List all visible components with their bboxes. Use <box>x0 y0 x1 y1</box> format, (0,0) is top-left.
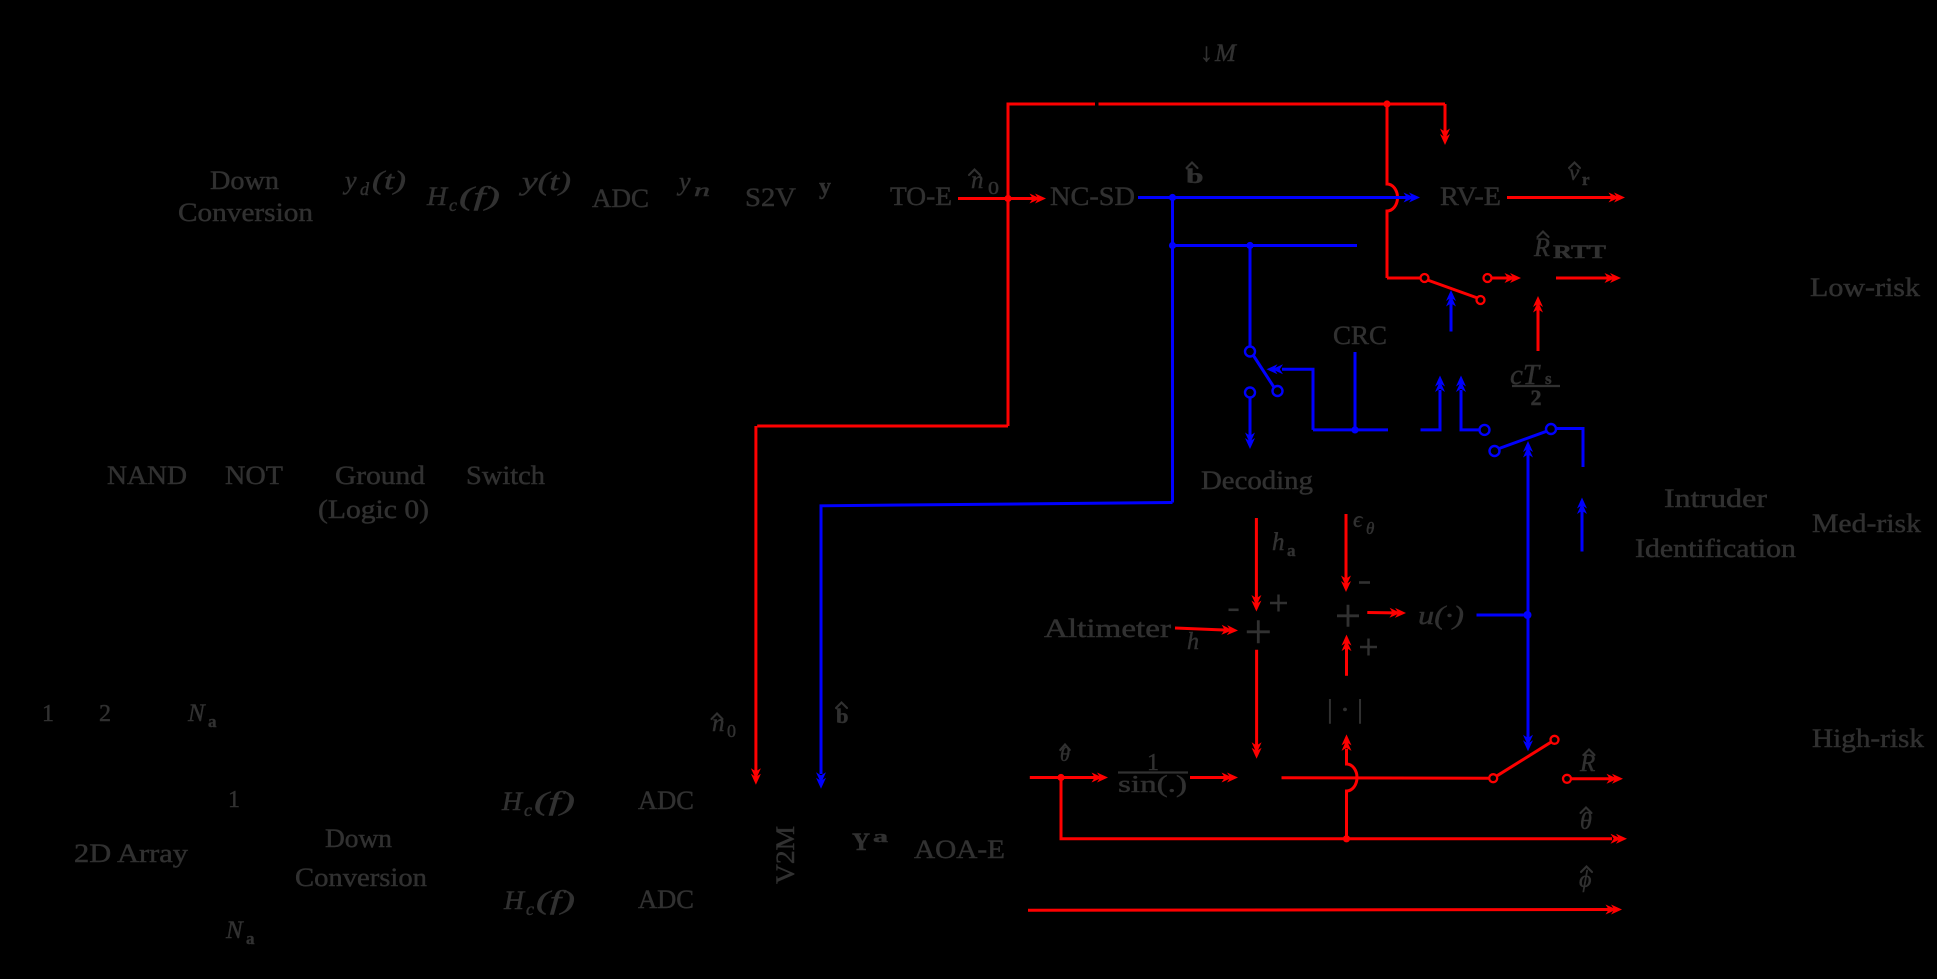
svg-text:RTT: RTT <box>1553 242 1606 263</box>
junction theta_hat tap <box>1057 774 1064 781</box>
wire to RTT switch contact <box>1387 277 1420 280</box>
junction u(.) output <box>1524 611 1532 619</box>
switch Med-risk blade <box>1499 431 1547 448</box>
switch RTT blade <box>1428 280 1478 298</box>
wire u(.) up to Med-risk blade <box>1527 452 1530 613</box>
wire CRC down to bus <box>1354 352 1357 430</box>
sign + at sum1 top-right <box>1270 595 1287 612</box>
junction b_hat branch tap <box>1169 242 1176 249</box>
svg-text:H: H <box>426 182 448 211</box>
svg-text:Y: Y <box>852 829 870 856</box>
sign + at sum2 bottom-right <box>1360 639 1377 656</box>
svg-text:2: 2 <box>1531 385 1542 410</box>
svg-text:V2M: V2M <box>771 826 800 884</box>
svg-text:a: a <box>246 929 255 948</box>
wire n0 across to V2M drop <box>757 425 1008 428</box>
svg-text:N: N <box>187 700 206 727</box>
svg-text:2: 2 <box>99 701 111 727</box>
svg-text:ϵ: ϵ <box>1353 507 1363 532</box>
svg-text:H: H <box>501 787 523 816</box>
svg-text:NOT: NOT <box>225 461 283 490</box>
switch Decoding blade <box>1253 356 1274 388</box>
svg-text:Altimeter: Altimeter <box>1044 614 1171 643</box>
svg-text:c: c <box>449 195 457 215</box>
wire switch to Decoding block <box>1249 398 1252 438</box>
junction theta output / R tap <box>1343 835 1350 842</box>
svg-text:AOA-E: AOA-E <box>914 835 1005 864</box>
svg-text:c: c <box>526 899 534 919</box>
svg-text:H: H <box>503 886 525 915</box>
svg-text:a: a <box>1287 541 1296 560</box>
svg-text:High-risk: High-risk <box>1812 724 1924 753</box>
switch RTT left contact <box>1421 274 1429 282</box>
junction CRC drop <box>1351 426 1358 433</box>
svg-text:Conversion: Conversion <box>178 198 313 227</box>
svg-text:y: y <box>819 174 831 200</box>
switch Med-risk left contact <box>1480 425 1490 435</box>
junction b_hat tap <box>1169 194 1176 201</box>
switch RTT right contact <box>1484 274 1492 282</box>
sign - at sum1 top-left <box>1229 608 1239 611</box>
svg-text:h: h <box>1272 529 1285 556</box>
svg-text:y(t): y(t) <box>518 167 571 196</box>
wire junction down to RTT switch (hop over blue) <box>1387 104 1398 278</box>
wire top feedback down into RV-E <box>1444 104 1447 134</box>
svg-text:TO-E: TO-E <box>890 182 952 211</box>
switch High-risk right contact <box>1563 775 1571 783</box>
svg-text:d: d <box>360 179 370 199</box>
wire sum1 down to sin node <box>1255 650 1258 748</box>
wire phi_hat output <box>1028 908 1611 912</box>
switch Med-risk right contact <box>1546 424 1556 434</box>
wire cT_s/2 up into RTT node <box>1537 307 1540 351</box>
svg-text:N: N <box>225 917 244 944</box>
wire switch to RTT scaler node <box>1492 277 1510 280</box>
wire R_hat_RTT output <box>1556 277 1610 280</box>
wire b_hat branch to Decoding switch <box>1173 244 1358 247</box>
svg-text:0: 0 <box>727 721 736 741</box>
svg-text:NC-SD: NC-SD <box>1050 182 1135 211</box>
sign - at sum2 top <box>1359 581 1370 584</box>
svg-text:Decoding: Decoding <box>1201 466 1313 495</box>
wire theta_hat into 1/sin <box>1030 776 1097 779</box>
svg-text:n: n <box>694 180 710 200</box>
svg-text:Ground: Ground <box>335 461 425 490</box>
svg-text:sin(.): sin(.) <box>1118 772 1187 798</box>
svg-text:θ: θ <box>1366 519 1374 538</box>
wire h_a down into sum1 <box>1255 518 1258 601</box>
wire RTT-select up toward RTT node <box>1450 301 1453 332</box>
wire top feedback right of downsample node <box>1099 103 1446 106</box>
wire u(.) output to tap <box>1477 614 1529 617</box>
switch High-risk blade end contact <box>1551 736 1559 744</box>
svg-text:Identification: Identification <box>1635 534 1796 563</box>
wire sum2 to u(.) <box>1367 611 1395 614</box>
svg-text:NAND: NAND <box>107 461 187 490</box>
wire product node to High-risk switch <box>1282 776 1490 780</box>
switch Med-risk blade end contact <box>1490 446 1500 456</box>
wire TO-E to NC-SD (n_hat_0) <box>958 197 1035 200</box>
svg-text:y: y <box>342 166 357 195</box>
svg-text:a: a <box>873 827 889 846</box>
svg-text:S2V: S2V <box>745 183 796 212</box>
svg-text:(Logic 0): (Logic 0) <box>318 495 429 524</box>
svg-text:2D Array: 2D Array <box>74 839 188 868</box>
svg-text:h: h <box>1187 629 1199 655</box>
svg-text:y: y <box>676 167 691 196</box>
svg-text:| · |: | · | <box>1327 695 1363 724</box>
wire u(.) down to High-risk blade <box>1527 615 1530 740</box>
wire theta_hat output <box>1061 778 1612 839</box>
svg-text:Down: Down <box>325 824 392 853</box>
svg-text:a: a <box>208 712 217 731</box>
svg-text:(f): (f) <box>534 787 575 816</box>
wire R_hat output <box>1572 777 1613 780</box>
svg-text:Down: Down <box>210 166 279 195</box>
wire R tap up (hop over horizontal) <box>1347 749 1358 839</box>
switch High-risk blade <box>1496 742 1551 776</box>
junction Decoding branch <box>1246 242 1253 249</box>
switch Decoding top contact <box>1245 347 1255 357</box>
svg-text:1: 1 <box>42 701 54 727</box>
switch Decoding lower contact <box>1245 388 1255 398</box>
svg-text:Low-risk: Low-risk <box>1810 273 1920 302</box>
switch High-risk left contact <box>1489 774 1497 782</box>
svg-text:u(·): u(·) <box>1418 601 1464 630</box>
wire CRC bus left segment <box>1313 428 1388 431</box>
svg-text:Conversion: Conversion <box>295 863 427 892</box>
svg-text:1: 1 <box>228 787 240 813</box>
wire b_hat tap down <box>1171 198 1174 503</box>
wire up into Intruder-Id node <box>1581 509 1584 552</box>
switch Decoding blade end contact <box>1273 386 1283 396</box>
svg-text:Intruder: Intruder <box>1664 484 1767 513</box>
junction n_hat_0 tap <box>1004 195 1011 202</box>
wire Med-risk contact to Intruder-Id node <box>1556 429 1583 468</box>
wire b_hat down to V2M <box>821 503 1173 775</box>
svg-text:Med-risk: Med-risk <box>1812 509 1921 538</box>
svg-text:c: c <box>524 800 532 820</box>
svg-text:(f): (f) <box>459 182 500 211</box>
wire Altimeter h into sum1 <box>1175 628 1227 630</box>
svg-text:r: r <box>1582 170 1590 189</box>
svg-text:↓: ↓ <box>1200 38 1213 67</box>
svg-text:CRC: CRC <box>1333 321 1387 350</box>
svg-text:Switch: Switch <box>466 461 545 490</box>
svg-text:RV-E: RV-E <box>1440 182 1501 211</box>
svg-text:ADC: ADC <box>638 885 694 914</box>
svg-text:ADC: ADC <box>638 786 694 815</box>
svg-text:ADC: ADC <box>592 184 649 213</box>
wire RV-E output v_hat_r <box>1507 196 1614 199</box>
wire n_hat_0 down to V2M <box>754 426 757 774</box>
wire bus to RTT-select arrows <box>1421 390 1441 430</box>
sum node 2 (angle error) plus-cross <box>1337 605 1359 627</box>
junction on top red wire <box>1383 100 1390 107</box>
wire down to Decoding switch pivot <box>1249 246 1252 347</box>
svg-text:(f): (f) <box>536 886 575 915</box>
wire epsilon_theta down into sum2 <box>1345 514 1348 581</box>
wire 1/sin to product node <box>1190 776 1227 779</box>
svg-text:0: 0 <box>988 178 999 198</box>
switch RTT blade end contact <box>1477 296 1485 304</box>
svg-text:M: M <box>1214 40 1237 67</box>
wire second RTT-select arrow and contact <box>1461 390 1480 430</box>
wire CRC bus to Decoding switch (left arrow) <box>1282 369 1313 430</box>
wire abs up into sum2 <box>1345 646 1348 676</box>
svg-text:b: b <box>1186 164 1204 188</box>
sum node 1 (altitude) plus-cross <box>1247 620 1270 643</box>
wire NC-SD to RV-E (b_hat) <box>1138 196 1409 199</box>
wire n0 feedback: up and across top (left of downsample node) <box>1008 104 1095 426</box>
svg-text:(t): (t) <box>372 166 406 195</box>
